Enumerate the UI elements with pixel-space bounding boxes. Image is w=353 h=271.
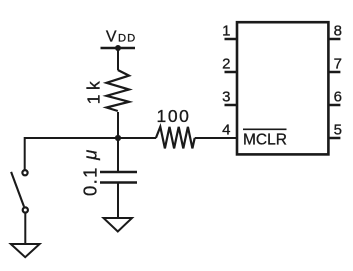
ground [11, 244, 40, 257]
svg-text:2: 2 [222, 56, 230, 73]
wire [117, 183, 119, 219]
ground [104, 218, 133, 232]
wire [25, 137, 157, 139]
IC body [237, 22, 328, 154]
svg-text:DD: DD [118, 32, 136, 44]
pin label MCLR [243, 129, 287, 148]
wire [117, 112, 119, 138]
svg-text:4: 4 [222, 122, 230, 139]
svg-text:100: 100 [157, 106, 191, 126]
svg-text:3: 3 [222, 89, 230, 106]
junction node [115, 135, 121, 141]
resistor 1k [107, 70, 130, 111]
svg-text:0.1 μ: 0.1 μ [79, 148, 100, 196]
power symbol VDD [101, 47, 136, 50]
pin 8 [328, 23, 342, 40]
pin 2 [222, 56, 237, 73]
svg-text:V: V [106, 28, 117, 45]
node at VDD rail [115, 45, 121, 51]
pin 5 [328, 122, 342, 139]
pin 3 [222, 89, 237, 106]
wire [195, 137, 237, 139]
pin 6 [328, 89, 342, 106]
wire [117, 138, 119, 172]
label VDD [106, 28, 136, 45]
svg-text:1: 1 [222, 23, 230, 40]
svg-text:MCLR: MCLR [243, 132, 287, 149]
pin 7 [328, 56, 342, 73]
resistor 100 [156, 127, 195, 149]
svg-text:5: 5 [334, 122, 342, 139]
svg-text:8: 8 [334, 23, 342, 40]
switch [11, 170, 28, 213]
svg-text:7: 7 [334, 56, 342, 73]
pin 1 [222, 23, 237, 40]
svg-text:1k: 1k [84, 77, 104, 104]
svg-text:6: 6 [334, 89, 342, 106]
wire [24, 137, 26, 170]
wire [24, 213, 26, 245]
capacitor 0.1u [100, 172, 137, 183]
wire [117, 48, 119, 70]
